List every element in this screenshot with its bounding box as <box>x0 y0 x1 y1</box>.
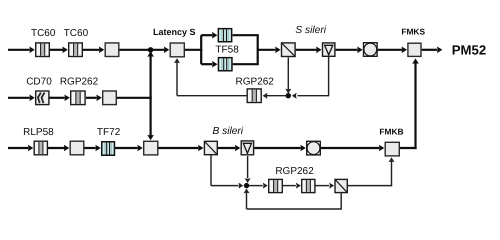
svg-text:FMKS: FMKS <box>401 26 425 36</box>
svg-text:FMKB: FMKB <box>379 127 403 137</box>
svg-text:Latency S: Latency S <box>153 27 196 37</box>
svg-text:CD70: CD70 <box>26 76 52 87</box>
svg-text:TF58: TF58 <box>215 44 239 55</box>
svg-text:RGP262: RGP262 <box>60 76 99 87</box>
svg-text:RLP58: RLP58 <box>23 127 54 138</box>
svg-text:TC60: TC60 <box>64 28 89 39</box>
svg-text:TF72: TF72 <box>97 127 121 138</box>
svg-text:S sileri: S sileri <box>295 25 326 36</box>
svg-text:RGP262: RGP262 <box>236 77 275 88</box>
svg-text:RGP262: RGP262 <box>275 166 314 177</box>
svg-text:TC60: TC60 <box>31 28 56 39</box>
svg-text:PM52: PM52 <box>452 43 486 58</box>
svg-text:B sileri: B sileri <box>213 126 244 137</box>
